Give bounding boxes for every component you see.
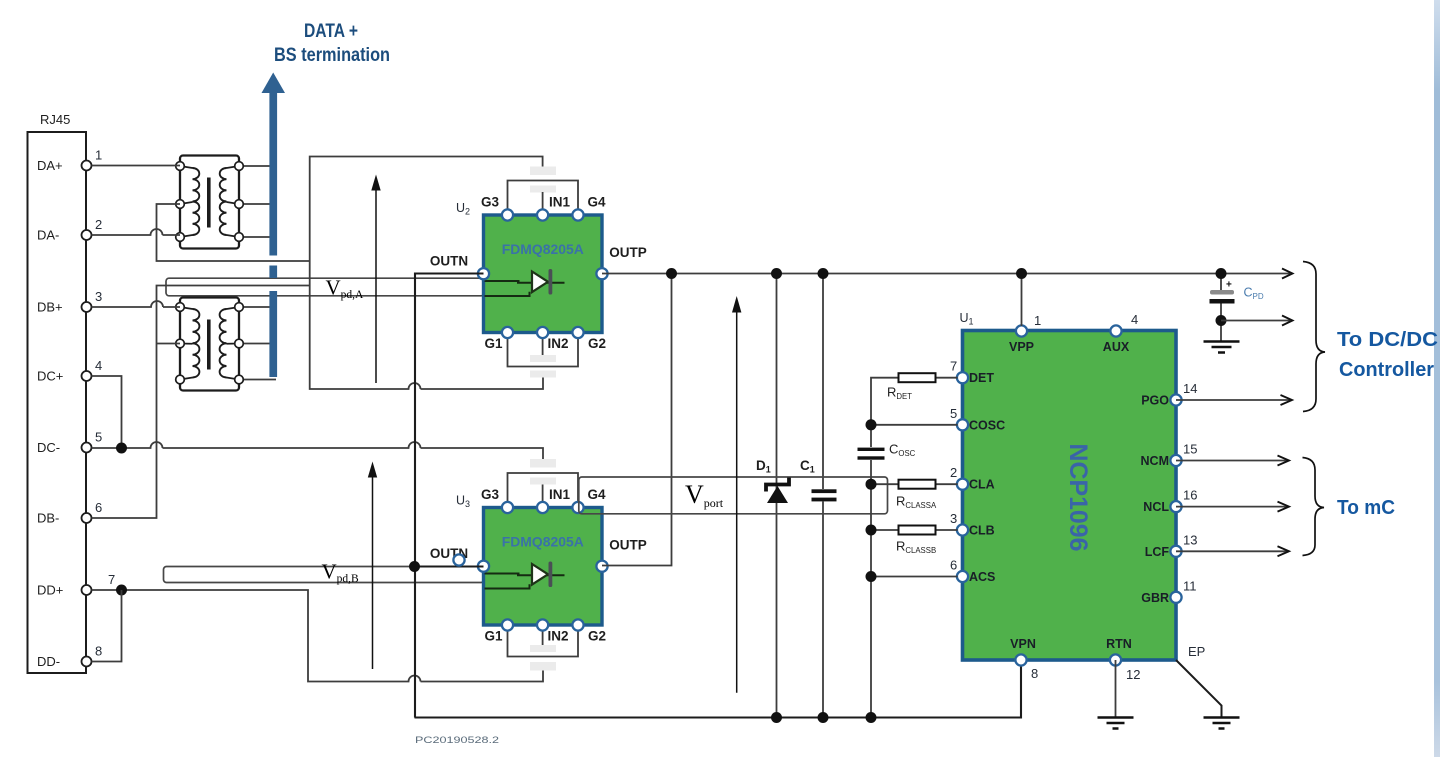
label U1 reference [960,311,974,327]
svg-text:NCP1096: NCP1096 [1064,444,1092,552]
wire NCM output arrow [1176,456,1289,466]
wire pin7 DD+ to U3 IN2 feed (hop at x414) [92,590,544,682]
svg-text:DATA +: DATA + [304,21,358,42]
svg-text:GBR: GBR [1141,591,1169,605]
wire EP to ground [1176,660,1222,717]
svg-text:G2: G2 [588,336,606,351]
RJ45 pin 3 label DB+ [37,289,102,315]
U3 pin G1 [502,619,513,630]
svg-text:4: 4 [95,358,102,373]
wire U2 IN2 stub [542,333,544,355]
svg-text:OUTP: OUTP [609,538,647,553]
wire pin8 DD- up to DD+ junction [92,590,122,662]
svg-text:15: 15 [1183,442,1197,457]
RJ45 pin 1 label DA+ [37,148,102,174]
U1 pin VPN (8) [1010,637,1038,681]
svg-text:16: 16 [1183,488,1197,503]
wire U3 G3-G4 gate loop (top) [508,473,579,507]
svg-text:1: 1 [95,148,102,163]
svg-text:PC20190528.2: PC20190528.2 [415,735,499,746]
DATA + BS termination arrow [262,73,286,378]
U3 pin IN2 [537,619,548,630]
wire U3 G1-G2 gate loop (bottom) [508,623,579,657]
label CPD [1244,286,1264,302]
svg-text:DB-: DB- [37,511,59,526]
svg-text:DC+: DC+ [37,369,63,384]
U3 OUTN label [430,546,468,561]
capacitor C1 [812,489,837,501]
arrow Vport measurement [732,296,741,693]
U1 pad EP label [1188,644,1205,659]
arrow Vpd,A measurement [371,175,380,384]
wire C1 leg [822,274,824,718]
wire transformer T1 secondary stubs [239,166,276,237]
svg-text:IN2: IN2 [547,336,568,351]
faded element below U3 IN2 [530,645,556,671]
U3 pin G4 [572,502,583,513]
wire U2 G3-G4 gate loop (top) [508,181,579,215]
wire left rail below COSC [870,460,872,718]
node junction U3 OUTN [409,561,420,572]
capacitor COSC [858,448,885,460]
U3 pin IN1 [537,502,548,513]
svg-text:PGO: PGO [1141,394,1169,408]
wire PGO output arrow [1176,395,1292,405]
U3 pin OUTP [596,561,607,572]
svg-text:Controller: Controller [1339,359,1434,381]
U1 pin RTN (12) [1106,637,1140,682]
wire CPD leg [1220,274,1222,341]
wire RTN to ground [1115,660,1117,717]
U2 bottom pin labels [484,336,606,351]
svg-text:IN1: IN1 [549,195,571,210]
node junction CPD bottom [1216,315,1227,326]
svg-text:VPN: VPN [1010,637,1036,651]
svg-text:G4: G4 [587,195,606,210]
U3 bottom pin labels [484,629,606,644]
svg-text:6: 6 [950,558,957,573]
svg-text:DA-: DA- [37,228,59,243]
wire CLB through RCLASSB [871,529,958,531]
bridge rectifier U2 FDMQ8205A [484,215,603,333]
node Vpd,B measurement box [164,567,485,583]
svg-text:2: 2 [950,465,957,480]
node junction D1 bottom [771,712,782,723]
U2 pin G4 [572,209,583,220]
U2 OUTN label [430,254,468,269]
svg-text:VPP: VPP [1009,340,1034,354]
wire pin2 DA- to T1 (hop over center-tap drop) [92,229,181,235]
svg-text:14: 14 [1183,381,1197,396]
transformer T1 [176,156,244,249]
label Vpd,A [326,276,365,302]
wire ACS [871,576,958,578]
node Vport measurement box [579,477,888,514]
faded element above U2 IN1 [530,167,556,193]
U2 pin G2 [572,327,583,338]
svg-text:NCM: NCM [1141,454,1169,468]
svg-text:12: 12 [1126,667,1140,682]
U1 pin PGO (14) [1141,381,1197,408]
svg-text:DB+: DB+ [37,300,63,315]
wire U3 OUTP riser [602,274,672,566]
U1 pin DET (7) [950,359,994,386]
U1 pin NCM (15) [1141,442,1198,469]
svg-text:1: 1 [1034,313,1041,328]
wire D1 leg [776,274,778,718]
svg-text:G1: G1 [484,336,503,351]
wire COSC pin [871,424,958,426]
U2 OUTP label [609,245,647,260]
U2 pin G1 [502,327,513,338]
RJ45 pin 2 label DA- [37,217,102,243]
zener diode D1 [766,478,789,504]
wire LCF output arrow [1176,546,1289,556]
svg-text:G4: G4 [587,487,606,502]
wire pin1 DA+ to T1 [92,165,181,167]
label document number [415,735,499,746]
svg-text:5: 5 [95,430,102,445]
U1 pin ACS (6) [950,558,995,585]
wire U3 IN2 stub [542,623,544,645]
label BS termination [274,45,390,66]
svg-text:OUTP: OUTP [609,245,647,260]
node junction left rail / bus [866,712,877,723]
svg-text:RTN: RTN [1106,637,1132,651]
node junction OUTP rail / U3 riser [666,268,677,279]
svg-text:DA+: DA+ [37,158,63,173]
U2 pin IN2 [537,327,548,338]
svg-text:IN1: IN1 [549,487,571,502]
wire U2 G1-G2 gate loop (bottom) [508,333,579,367]
svg-text:G1: G1 [484,629,503,644]
svg-text:To mC: To mC [1337,497,1395,519]
faded element above U3 IN1 [530,459,556,485]
svg-text:G3: G3 [481,487,500,502]
controller U1 NCP1096 [963,331,1177,661]
connector RJ45 [28,112,87,673]
svg-text:11: 11 [1183,578,1197,593]
node junction D1 top [771,268,782,279]
svg-text:+: + [1226,280,1232,291]
wire output arrow 2 [1221,316,1293,326]
label C1 [800,458,815,475]
U2 pin OUTP [596,268,607,279]
U1 pin VPP (1) [1009,313,1041,354]
wire OUTN rail x414 (U2 OUTN down to bottom bus) [415,274,484,718]
svg-text:ACS: ACS [969,570,995,584]
wire U3 OUTN [415,565,484,567]
wire U2 IN1 stub [542,192,544,214]
svg-text:FDMQ8205A: FDMQ8205A [502,535,584,550]
label RDET [887,385,912,402]
U3 pin G2 [572,619,583,630]
svg-text:DD-: DD- [37,654,60,669]
U1 pin CLB (3) [950,511,995,538]
node Vpd,A measurement box [166,278,484,296]
wire pin6 DB- riser to Vpd,A mid line [92,286,310,519]
ground EP [1204,718,1240,729]
U3 pin OUTN [478,561,489,572]
label RCLASSA [896,494,937,511]
node junction DC- [116,443,127,454]
svg-text:13: 13 [1183,532,1197,547]
svg-text:7: 7 [950,359,957,374]
U2 pin IN1 [537,209,548,220]
wire U3 IN1 stub [542,485,544,508]
svg-text:EP: EP [1188,644,1205,659]
label DATA + [304,21,358,42]
wire pin5 DC- to U3 IN1 feed (hops at x156 and x414) [92,442,544,459]
RJ45 pin 8 label DD- [37,644,102,670]
wire bottom bus to VPN [415,660,1022,718]
wire pin4 DC+ down to DC- junction [92,376,122,448]
svg-text:CLB: CLB [969,524,995,538]
svg-text:COSC: COSC [969,418,1005,432]
label D1 [756,458,771,475]
svg-text:LCF: LCF [1145,545,1170,559]
RJ45 pin 6 label DB- [37,500,102,526]
U2 top pin labels [481,195,606,210]
U2 reference label [456,201,470,217]
label Vpd,B [322,560,360,586]
resistor RCLASSB [899,526,936,535]
svg-text:CLA: CLA [969,478,995,492]
svg-text:DC-: DC- [37,440,60,455]
U3 OUTP label [609,538,647,553]
U3 top pin labels [481,487,606,502]
wire C-loop: feeds U2 IN1 (top) and IN2 (bottom, hop at x414) [310,157,543,390]
U1 pin GBR (11) [1141,578,1196,605]
label To DC/DC Controller [1337,329,1438,381]
svg-text:8: 8 [95,644,102,659]
svg-text:8: 8 [1031,666,1038,681]
capacitor CPD (polarized) [1210,280,1235,304]
page right border band [0,0,1,1]
resistor RCLASSA [899,480,936,489]
wire NCL output arrow [1176,502,1289,512]
brace To mC [1303,458,1325,556]
wire transformer T2 secondary stubs [239,307,276,380]
wire OUTP positive rail [602,269,1293,279]
transformer T2 [176,298,244,391]
resistor RDET [899,373,936,382]
U3 pin G3 [502,502,513,513]
svg-text:4: 4 [1131,312,1138,327]
wire T2 center tap to DB- riser [157,343,181,345]
svg-text:7: 7 [108,572,115,587]
label RCLASSB [896,539,936,556]
node junction CPD top [1216,268,1227,279]
node junction C1 bottom [818,712,829,723]
svg-text:To DC/DC: To DC/DC [1337,329,1438,351]
svg-text:NCL: NCL [1143,500,1169,514]
svg-text:DET: DET [969,371,994,385]
bridge rectifier U3 FDMQ8205A [484,508,603,626]
U1 pin LCF (13) [1145,532,1198,559]
U1 pin COSC (5) [950,406,1005,433]
wire pin3 DB+ to T2 (hop) [92,301,181,307]
svg-text:BS termination: BS termination [274,45,390,66]
svg-text:G2: G2 [588,629,606,644]
svg-text:OUTN: OUTN [430,254,468,269]
node probe circle OUTN B [453,554,464,565]
RJ45 pin 4 label DC+ [37,358,102,384]
U1 pin NCL (16) [1143,488,1197,514]
node junction DD+ [116,585,127,596]
svg-text:IN2: IN2 [547,629,568,644]
label To mC [1337,497,1395,519]
svg-text:AUX: AUX [1103,340,1130,354]
node junction C1 top [818,268,829,279]
svg-text:3: 3 [950,511,957,526]
label COSC [889,442,916,459]
svg-text:6: 6 [95,500,102,515]
node junction ACS [866,571,877,582]
node junction CLA [866,479,877,490]
wire VPP riser [1021,274,1023,327]
U2 pin OUTN [478,268,489,279]
ground RTN [1098,718,1134,729]
arrow Vpd,B measurement [368,462,377,670]
svg-text:3: 3 [95,289,102,304]
U1 pin AUX (4) [1103,312,1138,354]
label Vport [685,480,724,510]
wire CLA through RCLASSA [871,483,958,485]
node junction CLB [866,525,877,536]
wire DET to left rail [871,378,958,447]
U1 pin CLA (2) [950,465,995,492]
node junction VPP rail [1016,268,1027,279]
faded element below U2 IN2 [530,355,556,378]
svg-text:FDMQ8205A: FDMQ8205A [502,242,584,257]
brace To DC/DC Controller [1303,262,1325,412]
svg-text:G3: G3 [481,195,500,210]
svg-text:2: 2 [95,217,102,232]
U3 reference label [456,494,470,510]
svg-text:DD+: DD+ [37,583,63,598]
wire T1 center tap return [157,204,310,261]
svg-text:5: 5 [950,406,957,421]
ground below CPD [1204,342,1240,353]
node junction COSC [866,419,877,430]
RJ45 pin 5 label DC- [37,430,102,456]
svg-text:RJ45: RJ45 [40,112,70,127]
RJ45 pin 7 label DD+ [37,572,115,598]
U2 pin G3 [502,209,513,220]
